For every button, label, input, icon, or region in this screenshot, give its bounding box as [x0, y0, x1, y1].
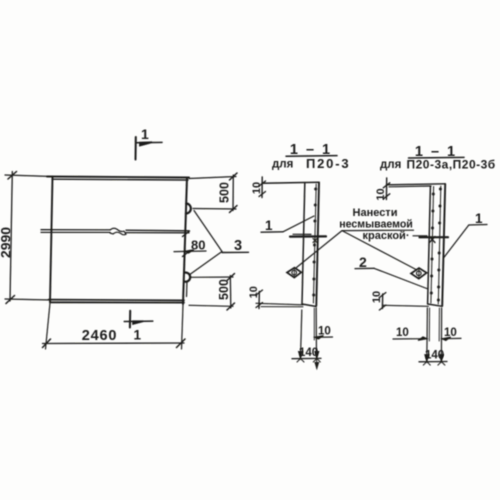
svg-text:2460: 2460 — [82, 328, 117, 344]
dimension 500 (top right): dimension line — [232, 175, 234, 211]
dimension 500 (bottom right): dimension line — [229, 276, 232, 309]
svg-text:500: 500 — [218, 182, 232, 203]
svg-text:П20-3а,П20-3б: П20-3а,П20-3б — [407, 158, 496, 172]
dimension 140 (left section) — [292, 357, 321, 359]
horizontal joint line (double) across panel — [41, 230, 189, 231]
bottom extension to the left (right section) — [383, 305, 428, 306]
extension lines below strip — [301, 310, 302, 359]
svg-text:140: 140 — [299, 347, 318, 359]
joint break mark (right section) — [430, 237, 436, 243]
svg-text:1: 1 — [265, 218, 273, 233]
svg-text:10: 10 — [248, 286, 260, 298]
dimension 500 (bottom right): extension lines — [191, 276, 234, 278]
svg-text:10: 10 — [318, 326, 331, 338]
dimension 140 (right section) — [419, 361, 447, 363]
dimension 2460: end ticks — [43, 339, 186, 348]
joint break mark (~) — [110, 228, 126, 235]
strip bottom edge (right section) — [428, 304, 443, 306]
section strip: right face (right section) — [442, 184, 445, 306]
dimension 10 (bottom left of right section) — [393, 338, 427, 340]
dimension 2990: dimension line — [10, 172, 12, 302]
svg-text:10: 10 — [251, 182, 263, 194]
joint break mark (left section) — [313, 239, 317, 243]
svg-text:10: 10 — [444, 327, 457, 339]
leader to left paint-mark diamond — [297, 231, 343, 268]
dimension 80 at joint: line and arrow — [174, 250, 206, 253]
bottom extension line to the left — [256, 303, 303, 305]
bottom-left 10 tick (right section) — [381, 294, 383, 309]
extension lines below strip (right section) — [426, 308, 429, 362]
svg-text:10: 10 — [375, 188, 387, 200]
svg-text:140: 140 — [425, 350, 444, 362]
top 10 dimension tick (right section) — [385, 178, 387, 200]
strip bottom edge — [302, 304, 316, 307]
top 10 dimension tick — [261, 177, 263, 198]
svg-text:несмываемой: несмываемой — [339, 219, 413, 231]
svg-text:10: 10 — [396, 327, 409, 339]
dimension 500 (top right): extension lines — [189, 177, 236, 179]
svg-text:10: 10 — [371, 291, 383, 303]
underline of note text — [342, 229, 414, 231]
leader lines to item 3 from both hooks — [194, 211, 222, 252]
item 3 underline — [222, 251, 249, 253]
joint line in left section — [293, 233, 311, 235]
dimension 2460 (bottom): extension lines — [46, 303, 51, 349]
svg-text:Нанести: Нанести — [353, 207, 398, 219]
panel outline: right edge — [183, 178, 187, 305]
right paint-mark diamond — [411, 268, 427, 279]
top lifting hook (circle) — [186, 204, 191, 214]
top edge line of section (double) — [387, 184, 446, 185]
top edge line of section — [262, 182, 319, 183]
svg-text:3: 3 — [234, 238, 242, 254]
section strip: mesh line with rebar dots — [313, 184, 316, 303]
left paint-mark diamond — [287, 268, 301, 278]
item 2 label: underline and leader — [355, 267, 374, 269]
dimension 10 (bottom right of right section) — [442, 337, 461, 339]
mesh line 1 (left) with dots — [431, 187, 434, 304]
joint line in right section — [413, 235, 427, 237]
svg-text:краской·: краской· — [363, 230, 410, 242]
bottom-left 10 dimension tick — [258, 292, 260, 309]
svg-text:2: 2 — [359, 254, 367, 270]
title underline (left section) — [286, 155, 337, 158]
dimension 2990: end ticks — [6, 172, 17, 304]
svg-text:2990: 2990 — [0, 227, 14, 258]
svg-text:для: для — [272, 159, 293, 171]
panel outline: left edge — [50, 177, 53, 303]
leader to right paint-mark diamond — [342, 231, 416, 270]
svg-text:500: 500 — [217, 279, 231, 300]
mesh line 2 (right) with dots — [438, 186, 441, 304]
section mark 1 (bottom) — [129, 311, 131, 328]
svg-text:для: для — [380, 159, 401, 171]
section mark 1 (top) — [135, 137, 137, 160]
svg-text:1: 1 — [475, 211, 483, 226]
svg-text:1: 1 — [134, 328, 142, 343]
section strip: left face (right section) — [428, 187, 431, 305]
title underline (right section) — [409, 156, 465, 159]
item 1 label (left section): underline and leader — [261, 231, 283, 233]
dimension 2990 (left): extension lines — [5, 175, 53, 177]
dimension 2460: dimension line — [43, 342, 185, 345]
svg-text:П20-3: П20-3 — [306, 156, 350, 171]
svg-text:80: 80 — [191, 238, 205, 253]
bottom lifting hook (circle) — [184, 273, 190, 282]
section strip: left face — [302, 184, 305, 305]
panel outline: bottom edge (double line) — [49, 299, 185, 302]
dimension 10 (bottom of left section) — [315, 336, 333, 338]
panel outline: top edge (double line) — [47, 177, 189, 178]
item 1 label (right section): underline and leader — [469, 224, 487, 227]
svg-text:1: 1 — [141, 126, 149, 142]
section strip: right face — [316, 182, 319, 305]
